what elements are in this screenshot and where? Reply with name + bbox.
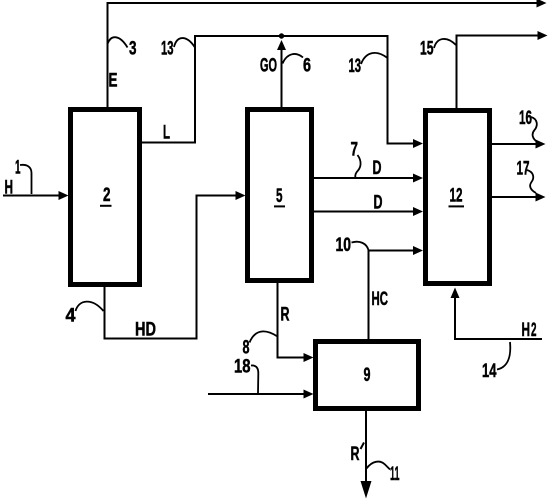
arrow H2 up into box 12 bbox=[451, 288, 460, 299]
leader 6 bbox=[283, 54, 304, 64]
svg-text:12: 12 bbox=[450, 186, 463, 207]
wire HC from box 9 top into box 12 bbox=[369, 251, 415, 340]
leader 13 right bbox=[361, 53, 388, 64]
arrow 16 right bbox=[536, 140, 546, 149]
node GO junction bbox=[279, 33, 284, 38]
svg-text:HC: HC bbox=[372, 289, 389, 310]
svg-text:D: D bbox=[374, 193, 383, 214]
leader 14 bbox=[497, 342, 510, 370]
label 12 bbox=[449, 186, 465, 207]
box 2 bbox=[71, 110, 140, 285]
arrow stream 3 right bbox=[537, 0, 547, 8]
box 5 bbox=[248, 110, 312, 281]
wire output 16 bbox=[492, 143, 537, 145]
svg-text:18: 18 bbox=[234, 357, 251, 378]
arrow 18 into box 9 bbox=[304, 390, 314, 399]
arrow H into box 2 bbox=[59, 191, 69, 200]
wire L from box 2 right bbox=[142, 142, 196, 144]
svg-text:H: H bbox=[522, 320, 531, 341]
arrow D upper into box 12 bbox=[413, 174, 423, 183]
label 2 bbox=[100, 185, 112, 206]
svg-text:2: 2 bbox=[103, 185, 111, 206]
wire top line stream 3 bbox=[107, 2, 538, 4]
wire 18 feed into box 9 bbox=[208, 393, 304, 395]
svg-text:10: 10 bbox=[336, 235, 352, 256]
leader 3 bbox=[108, 37, 128, 47]
svg-text:E: E bbox=[109, 71, 118, 92]
arrow stream 15 right bbox=[538, 31, 548, 40]
leader 7 bbox=[355, 155, 360, 178]
svg-text:D: D bbox=[373, 158, 382, 179]
leader 17 bbox=[527, 170, 536, 193]
wire D upper bbox=[314, 177, 414, 179]
leader 15 bbox=[434, 39, 456, 48]
svg-text:7: 7 bbox=[351, 140, 359, 161]
label 5 bbox=[274, 186, 285, 207]
arrow HC into box 12 bbox=[413, 246, 423, 255]
leader 13 left bbox=[174, 38, 195, 47]
svg-text:17: 17 bbox=[517, 159, 530, 180]
arrow GO up bbox=[277, 40, 286, 50]
leader 18 bbox=[251, 365, 258, 393]
svg-text:R: R bbox=[351, 444, 360, 465]
leader 8 bbox=[250, 331, 278, 342]
svg-text:HD: HD bbox=[135, 320, 156, 341]
svg-text:8: 8 bbox=[243, 338, 250, 359]
svg-text:2: 2 bbox=[531, 320, 537, 341]
wire E riser from box 2 top bbox=[107, 3, 109, 107]
arrow HD into box 5 bbox=[236, 191, 246, 200]
svg-text:R: R bbox=[281, 305, 290, 326]
svg-text:4: 4 bbox=[66, 306, 76, 327]
svg-text:9: 9 bbox=[364, 365, 371, 386]
leader 16 bbox=[531, 117, 538, 142]
wire GO from box 5 top bbox=[281, 42, 283, 107]
arrow 17 right bbox=[536, 193, 546, 202]
label R' bbox=[351, 443, 365, 466]
wire line 2 stream 13 bbox=[194, 35, 387, 37]
label H2 bbox=[522, 320, 537, 341]
arrow D lower into box 12 bbox=[413, 207, 423, 216]
svg-text:13: 13 bbox=[349, 56, 362, 77]
wire R' from box 9 bottom bbox=[365, 411, 367, 482]
arrow 13 into box 12 bbox=[413, 139, 423, 148]
box 9 bbox=[316, 342, 419, 409]
wire riser 13 bbox=[194, 36, 196, 144]
svg-text:GO: GO bbox=[260, 56, 277, 77]
wire H2 feed into box 12 bottom bbox=[455, 297, 542, 339]
wire H feed bbox=[3, 195, 59, 197]
svg-text:L: L bbox=[163, 123, 170, 144]
arrow R into box 9 bbox=[304, 353, 314, 362]
svg-text:5: 5 bbox=[276, 186, 283, 207]
leader 4 bbox=[76, 302, 104, 311]
svg-text:11: 11 bbox=[390, 464, 400, 485]
arrow R' down bbox=[361, 481, 372, 499]
svg-text:6: 6 bbox=[303, 56, 311, 77]
box 12 bbox=[426, 111, 490, 284]
leader 11 bbox=[367, 462, 391, 470]
svg-text:13: 13 bbox=[161, 39, 174, 60]
svg-text:1: 1 bbox=[15, 158, 21, 179]
svg-text:14: 14 bbox=[482, 361, 497, 382]
wire output 17 bbox=[492, 196, 537, 198]
wire R from box 5 bottom into box 9 bbox=[278, 283, 305, 358]
svg-text:15: 15 bbox=[420, 39, 434, 60]
leader 10 bbox=[352, 242, 369, 250]
wire downcomer 13 into box 12 bbox=[388, 35, 415, 144]
leader 1 bbox=[20, 165, 32, 194]
wire D lower bbox=[314, 211, 414, 213]
svg-text:3: 3 bbox=[129, 39, 137, 60]
svg-text:16: 16 bbox=[519, 108, 532, 129]
wire HD from box 2 bottom to box 5 bbox=[105, 196, 237, 339]
wire riser 15 from box 12 top bbox=[457, 36, 539, 109]
svg-text:H: H bbox=[5, 178, 14, 199]
